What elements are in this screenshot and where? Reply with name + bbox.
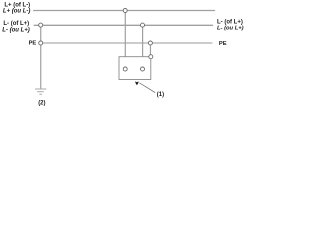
device corner terminal node (149, 55, 153, 59)
device terminal pin 2 (141, 67, 145, 71)
svg-text:L- (of L+): L- (of L+) (3, 21, 29, 27)
svg-text:PE: PE (219, 41, 227, 47)
svg-text:(1): (1) (157, 92, 164, 98)
node on L- bus (right junction) (141, 23, 145, 27)
device terminal pin 1 (123, 67, 127, 71)
wire drop from PE bus to device corner terminal (149, 45, 151, 55)
node on L- bus (left junction) (39, 23, 43, 27)
arrow pointer to device (1) (135, 81, 155, 92)
svg-text:L- (ou L+): L- (ou L+) (217, 26, 244, 32)
wire drop from L- bus to device terminal (142, 27, 144, 67)
wire L- bus (34, 24, 213, 26)
svg-text:L+ (ou L-): L+ (ou L-) (3, 9, 31, 15)
node on PE bus (left junction) (39, 41, 43, 45)
ground (earth symbol) (35, 89, 46, 94)
node on PE bus (right junction) (148, 41, 152, 45)
svg-text:PE: PE (29, 41, 37, 47)
wire earth conductor down from PE node (40, 45, 42, 89)
wire L+ top bus (33, 10, 215, 12)
wire PE bus (43, 42, 213, 44)
svg-text:L+ (of L-): L+ (of L-) (4, 2, 30, 8)
device box (1) surge arrester (119, 57, 151, 80)
svg-text:(2): (2) (38, 100, 45, 106)
node on L+ bus (junction) (123, 9, 127, 13)
svg-text:L- (ou L+): L- (ou L+) (2, 27, 30, 33)
wire drop from L+ bus to device terminal (124, 13, 126, 67)
wire vertical L- node to PE node (left) (40, 27, 42, 41)
